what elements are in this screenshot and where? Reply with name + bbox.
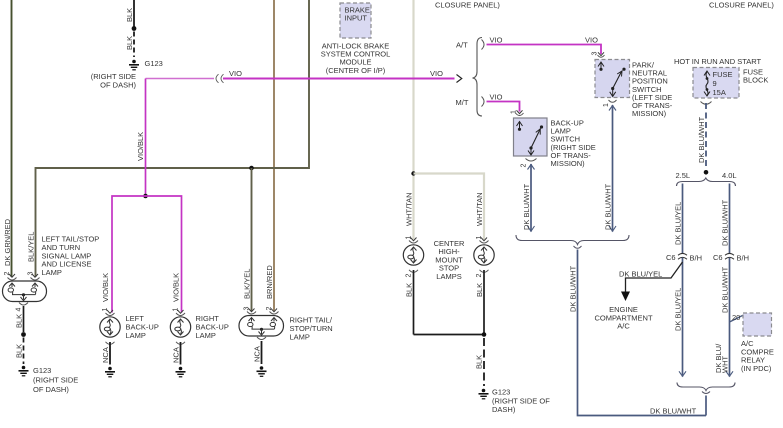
svg-text:2.5L: 2.5L [676, 171, 691, 180]
merge brace bottom right [677, 383, 735, 394]
svg-text:2: 2 [406, 274, 413, 278]
A/C compressor relay [741, 313, 774, 373]
svg-text:DK BLU/YEL: DK BLU/YEL [674, 288, 683, 331]
brace A/T-M/T [456, 38, 483, 117]
wire BLK from left tail lamp [15, 306, 26, 364]
svg-text:3: 3 [592, 52, 599, 56]
svg-text:BLOCK: BLOCK [743, 76, 768, 85]
svg-text:WHT: WHT [721, 356, 730, 373]
svg-text:BLK: BLK [15, 344, 24, 358]
inline connector on VIO wire [216, 74, 224, 83]
svg-text:NCA: NCA [101, 347, 110, 363]
svg-text:DK BLU/WHT: DK BLU/WHT [604, 183, 613, 230]
svg-text:M/T: M/T [456, 98, 469, 107]
wire VIO M/T branch [487, 93, 520, 112]
svg-text:2: 2 [476, 274, 483, 278]
svg-text:VIO: VIO [490, 93, 503, 102]
ground G123 left [19, 366, 79, 394]
svg-text:LAMP: LAMP [42, 268, 62, 277]
ground G123 top-left [91, 59, 163, 90]
branch DK BLU/WHT (4.0L) lower [714, 258, 733, 377]
svg-text:A/C: A/C [617, 322, 630, 331]
svg-text:WHT/TAN: WHT/TAN [405, 192, 414, 226]
wire NCA from right tail lamp [253, 341, 262, 364]
svg-text:VIO: VIO [430, 69, 443, 78]
svg-text:G123: G123 [145, 59, 163, 68]
svg-text:NCA: NCA [172, 347, 181, 363]
ground right tail lamp [257, 366, 267, 377]
left back-up lamp [100, 313, 159, 365]
wire VIO/BLK manifold to back-up lamps [101, 196, 182, 313]
svg-text:DK BLU/WHT: DK BLU/WHT [569, 265, 578, 312]
ground right back-up lamp [176, 367, 186, 378]
wire WHT/TAN branch [414, 174, 485, 241]
branch DK BLU/YEL (2.5L) lower [674, 258, 687, 377]
connector arc M/T branch [482, 97, 485, 107]
svg-text:2: 2 [521, 164, 528, 168]
connector below fuse block [701, 102, 712, 105]
branch DK BLU/WHT (4.0L) upper [721, 184, 730, 254]
connector arc A/T branch [482, 40, 485, 50]
back-up lamp switch [511, 110, 596, 168]
arrow into A/T-M/T brace [457, 75, 462, 83]
svg-text:BLK: BLK [125, 36, 134, 50]
wire from bottom brace to main run [705, 396, 707, 416]
svg-text:NCA: NCA [253, 346, 262, 362]
svg-text:LAMP: LAMP [126, 331, 146, 340]
ground G123 center [479, 388, 551, 415]
svg-text:DK BLU/WHT: DK BLU/WHT [697, 116, 706, 163]
svg-text:B/H: B/H [737, 254, 750, 263]
svg-text:HOT IN RUN AND START: HOT IN RUN AND START [674, 57, 762, 66]
svg-text:20: 20 [732, 313, 740, 322]
wire BLK top-left with splice [125, 0, 136, 57]
wire DK GRN/RED (left tail lamp feed) [3, 0, 12, 277]
svg-text:LAMPS: LAMPS [436, 272, 461, 281]
wire BLK/YEL trunk [27, 0, 310, 277]
right back-up lamp [170, 313, 229, 365]
svg-text:1: 1 [603, 103, 610, 107]
park/neutral position switch [592, 52, 673, 119]
svg-text:VIO: VIO [585, 36, 598, 45]
svg-text:DK BLU/YEL: DK BLU/YEL [619, 270, 662, 279]
ground left back-up lamp [105, 367, 115, 378]
svg-text:OF DASH): OF DASH) [33, 385, 69, 394]
svg-text:BLK/YEL: BLK/YEL [243, 269, 252, 299]
svg-text:C6: C6 [713, 253, 723, 262]
svg-text:MISSION): MISSION) [551, 159, 586, 168]
svg-text:FUSE: FUSE [713, 70, 733, 79]
stop lamp right [474, 241, 494, 335]
stop lamp left [403, 241, 423, 335]
svg-text:BRN/RED: BRN/RED [265, 265, 274, 299]
svg-text:(RIGHT SIDE: (RIGHT SIDE [33, 376, 78, 385]
junction VIO/BLK splice [143, 194, 148, 199]
brake input module (ABS) [321, 3, 391, 75]
svg-text:VIO: VIO [229, 69, 242, 78]
svg-text:INPUT: INPUT [345, 14, 368, 23]
svg-text:DK BLU/WHT: DK BLU/WHT [721, 266, 730, 313]
center high-mount stop lamps label [434, 239, 465, 281]
tap wire to A/C compressor relay pin 20 [730, 313, 743, 322]
svg-text:DK BLU/WHT: DK BLU/WHT [650, 407, 697, 416]
svg-text:(CENTER OF I/P): (CENTER OF I/P) [326, 66, 386, 75]
svg-text:WHT/TAN: WHT/TAN [475, 192, 484, 226]
svg-text:9: 9 [713, 79, 717, 88]
svg-text:LAMP: LAMP [290, 333, 310, 342]
svg-text:BLK/YEL: BLK/YEL [27, 232, 36, 262]
svg-text:LAMP: LAMP [196, 331, 216, 340]
wire DK BLU/WHT main run [569, 250, 707, 416]
junction BLK/YEL splice [249, 166, 254, 171]
svg-text:G123: G123 [492, 388, 510, 397]
wire WHT/TAN trunk [405, 0, 414, 241]
svg-text:C6: C6 [666, 253, 676, 262]
svg-text:DK GRN/RED: DK GRN/RED [3, 218, 12, 266]
svg-text:15A: 15A [713, 88, 726, 97]
wire DK BLU/WHT fused (dashed) [697, 103, 706, 167]
stop lamps common ground wire [414, 332, 487, 386]
svg-text:A/T: A/T [456, 41, 468, 50]
closure panel label left [435, 1, 500, 10]
svg-text:(RIGHT SIDE OF: (RIGHT SIDE OF [492, 396, 550, 405]
wire DK BLU/WHT from park/neutral switch [604, 105, 617, 232]
svg-text:OF DASH): OF DASH) [100, 81, 136, 90]
svg-text:BLK: BLK [475, 283, 484, 297]
junction dot above split brace [704, 170, 709, 175]
svg-text:BLK: BLK [15, 314, 24, 328]
svg-text:BLK: BLK [125, 8, 134, 22]
wire-end flares at connector pins [9, 52, 604, 313]
tap wire DK BLU/YEL to engine compartment A/C [594, 262, 682, 331]
wire BLK/YEL branch to right tail lamp [243, 168, 252, 311]
svg-text:MISSION): MISSION) [632, 109, 667, 118]
svg-text:G123: G123 [33, 366, 51, 375]
fuse F9 15A [704, 70, 733, 97]
svg-text:VIO/BLK: VIO/BLK [101, 273, 110, 302]
split brace 2.5L/4.0L [676, 171, 737, 186]
svg-text:4.0L: 4.0L [722, 171, 737, 180]
svg-text:4: 4 [16, 308, 23, 312]
svg-text:VIO: VIO [490, 36, 503, 45]
svg-text:DK BLU/WHT: DK BLU/WHT [721, 199, 730, 246]
svg-text:(IN PDC): (IN PDC) [741, 364, 772, 373]
fuse block [674, 57, 768, 98]
right tail/stop/turn lamp [239, 312, 333, 342]
closure panel label right [709, 1, 774, 10]
wire VIO A/T branch [487, 36, 602, 55]
svg-text:VIO/BLK: VIO/BLK [136, 132, 145, 161]
wire BRN/RED (right tail lamp feed) [265, 0, 274, 311]
svg-text:BLK: BLK [475, 355, 484, 369]
svg-text:DASH): DASH) [492, 405, 516, 414]
branch DK BLU/YEL (2.5L) upper [674, 184, 683, 254]
svg-text:DK BLU/WHT: DK BLU/WHT [522, 183, 531, 230]
wire VIO trunk horizontal [146, 69, 455, 79]
wire VIO/BLK vertical [136, 79, 146, 197]
svg-text:B/H: B/H [690, 254, 703, 263]
merge brace below switches [516, 235, 629, 248]
left tail/stop lamp [3, 235, 100, 312]
svg-text:DK BLU/YEL: DK BLU/YEL [674, 202, 683, 245]
junction WHT/TAN splice [411, 171, 415, 175]
connector C6 left [666, 253, 702, 263]
connector C6 right [713, 253, 749, 263]
svg-text:BLK: BLK [405, 283, 414, 297]
wire DK BLU/WHT from back-up lamp switch [522, 164, 535, 232]
svg-text:VIO/BLK: VIO/BLK [172, 273, 181, 302]
